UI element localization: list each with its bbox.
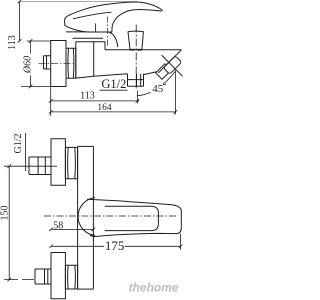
dimension 113 horizontal line xyxy=(51,100,139,102)
shower outlet nipple side view xyxy=(128,74,144,87)
plan centerline horizontal xyxy=(44,215,177,217)
handle stem edge xyxy=(95,23,97,31)
valve body side view xyxy=(76,42,105,78)
barrel top edge xyxy=(105,49,181,51)
G1/2 underline side view xyxy=(100,89,128,91)
plan lower escutcheon xyxy=(51,253,65,299)
svg-text:45: 45 xyxy=(152,83,164,95)
tick left of 113h xyxy=(49,99,53,103)
tick bottom of D60 xyxy=(29,85,33,89)
body bottom edge xyxy=(76,71,160,78)
union centerline side view xyxy=(39,62,75,64)
plan body back edge xyxy=(77,146,79,289)
tick bottom of 150 xyxy=(7,278,11,282)
plan view G1/2 leader line xyxy=(25,133,27,171)
svg-text:58: 58 xyxy=(53,220,63,231)
tick top of 113v xyxy=(18,0,22,3)
svg-text:G1/2: G1/2 xyxy=(101,77,126,91)
angle 45 arc xyxy=(137,71,176,96)
spout diagonal stroke 2 xyxy=(162,55,183,76)
dimension 175 line xyxy=(51,245,181,247)
svg-text:164: 164 xyxy=(97,103,112,113)
text D60 xyxy=(22,54,34,76)
extension line x175.4 xyxy=(174,71,176,115)
plan lower nut xyxy=(65,265,77,289)
dimension D60 vertical line xyxy=(30,41,32,87)
dimension 58 line xyxy=(51,228,93,230)
svg-text:G1/2: G1/2 xyxy=(13,134,24,154)
plan upper escutcheon xyxy=(51,139,65,186)
text 45 degrees xyxy=(151,82,166,95)
extension line at y86.5 xyxy=(21,86,51,88)
plan body top edge xyxy=(78,145,94,147)
wall extension line xyxy=(50,87,52,117)
tick top of D60 xyxy=(29,39,33,43)
dimension 164 line xyxy=(51,111,176,113)
dimension 113 vertical line xyxy=(19,2,21,42)
cap tier line xyxy=(73,37,104,39)
plan lever outline xyxy=(87,199,181,236)
tick top of 150 xyxy=(7,164,11,168)
connection nut side view xyxy=(66,48,76,78)
svg-text:Ø60: Ø60 xyxy=(23,56,34,74)
body internal line xyxy=(93,42,95,76)
svg-text:113: 113 xyxy=(80,91,95,102)
plan dome arc xyxy=(78,198,95,236)
lever tip extension line xyxy=(180,234,182,250)
tick right of 164 xyxy=(174,110,178,114)
tick right of 175 xyxy=(179,245,183,249)
tick left of 164 xyxy=(49,110,53,114)
plan body bottom edge xyxy=(78,288,94,290)
cartridge centerline xyxy=(106,17,108,48)
spout pipe 45deg xyxy=(156,64,172,80)
extension line x137.5 xyxy=(137,91,139,104)
extension line at y41 xyxy=(27,40,51,42)
tick left of 58 xyxy=(49,228,53,232)
tick bottom of 113v xyxy=(18,39,22,43)
spout diagonal stroke 1 xyxy=(158,50,181,73)
svg-text:150: 150 xyxy=(0,206,10,221)
tick left of 175 xyxy=(49,245,53,249)
svg-text:thehome: thehome xyxy=(129,281,179,295)
lever handle side view xyxy=(65,2,163,32)
dimension 150 extension bottom xyxy=(4,279,34,281)
dimension 150 line xyxy=(8,166,10,279)
plan lever inner contour xyxy=(105,206,159,230)
diverter knob feet xyxy=(131,49,141,51)
plan lower supply pipe xyxy=(35,269,51,284)
tick right of 113h xyxy=(136,99,140,103)
diverter knob side view xyxy=(128,31,143,49)
plan upper supply pipe xyxy=(29,157,51,175)
plan body front edge xyxy=(92,146,94,289)
diverter centerline xyxy=(135,25,137,90)
spout nut 45deg xyxy=(163,56,181,74)
tick right of 58 xyxy=(92,228,96,232)
svg-text:175: 175 xyxy=(105,238,125,253)
svg-text:113: 113 xyxy=(7,35,18,50)
plan upper nut xyxy=(65,147,77,178)
escutcheon side view xyxy=(51,41,66,87)
handle skirt line and cap dome right curve xyxy=(66,32,118,47)
handle inner scoop line xyxy=(73,12,112,19)
wall nipple side view xyxy=(44,56,51,69)
dimension 150 extension top xyxy=(4,165,57,167)
top extension line xyxy=(20,1,138,3)
